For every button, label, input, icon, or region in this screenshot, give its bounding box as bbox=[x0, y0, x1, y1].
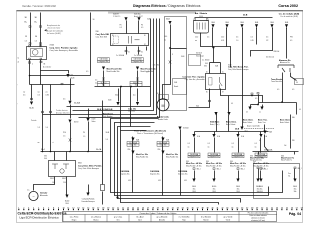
svg-text:Alternador: Alternador bbox=[40, 194, 48, 197]
svg-text:X84 2: X84 2 bbox=[62, 178, 66, 180]
svg-text:35: 35 bbox=[187, 207, 189, 209]
svg-text:12: 12 bbox=[72, 207, 74, 209]
connector X2 inline bbox=[66, 74, 69, 77]
svg-text:0.5: 0.5 bbox=[292, 89, 294, 91]
svg-text:87: 87 bbox=[222, 91, 224, 93]
svg-text:Bomb.: Bomb. bbox=[174, 86, 179, 88]
wire: connector chain bbox=[70, 79, 72, 101]
svg-text:0.5: 0.5 bbox=[251, 37, 253, 39]
battery B1 bbox=[194, 21, 209, 34]
svg-text:Trava Direção: Trava Direção bbox=[271, 78, 282, 81]
svg-text:Diag. 30a: Diag. 30a bbox=[130, 145, 137, 147]
svg-text:30-B: 30-B bbox=[211, 22, 214, 24]
svg-text:Maxi-Fusible +B 30a: Maxi-Fusible +B 30a bbox=[186, 165, 201, 167]
svg-text:16.0: 16.0 bbox=[164, 36, 167, 38]
svg-text:14: 14 bbox=[82, 207, 84, 209]
svg-text:Solen.: Solen. bbox=[92, 121, 97, 123]
svg-text:Cts. de medición (30-B): Cts. de medición (30-B) bbox=[280, 15, 298, 18]
svg-text:1.0: 1.0 bbox=[236, 40, 238, 42]
svg-text:3: 3 bbox=[28, 207, 29, 209]
svg-text:P10: P10 bbox=[63, 132, 66, 134]
svg-text:30-B: 30-B bbox=[136, 140, 139, 142]
svg-text:Bater. Tras.: Bater. Tras. bbox=[258, 119, 268, 122]
svg-text:Conj. Distr. Elétr. Partida: Conj. Distr. Elétr. Partida bbox=[78, 165, 102, 168]
svg-text:87: 87 bbox=[144, 44, 146, 46]
svg-text:0.5: 0.5 bbox=[63, 99, 65, 101]
svg-text:X1 30-B: X1 30-B bbox=[183, 128, 188, 130]
svg-text:25.0: 25.0 bbox=[195, 37, 198, 39]
svg-text:chicote do motor: chicote do motor bbox=[47, 26, 61, 29]
svg-text:bl = Azul: bl = Azul bbox=[137, 216, 144, 219]
svg-text:30a: 30a bbox=[135, 85, 138, 87]
maxi fuse F1 arrow bbox=[102, 67, 105, 70]
svg-text:Amarillo: Amarillo bbox=[159, 218, 165, 221]
svg-text:0.5: 0.5 bbox=[208, 143, 210, 145]
svg-text:X2: X2 bbox=[71, 75, 73, 77]
svg-text:X30: X30 bbox=[96, 31, 99, 33]
battery main cable bbox=[201, 33, 227, 47]
svg-text:30-30: 30-30 bbox=[65, 201, 69, 203]
svg-text:Conj. 30a: Conj. 30a bbox=[128, 111, 135, 113]
wire: ignition sw pin to ground branch bbox=[29, 60, 31, 85]
svg-text:Negro: Negro bbox=[72, 218, 77, 221]
svg-text:0.5: 0.5 bbox=[86, 71, 88, 73]
svg-text:7a6: 7a6 bbox=[284, 145, 287, 147]
tap to column CL3 bbox=[178, 127, 181, 130]
fuse reference boxes F1 bbox=[98, 58, 110, 60]
svg-text:B6: B6 bbox=[44, 64, 46, 66]
junction split row bbox=[30, 75, 91, 77]
svg-text:0.5: 0.5 bbox=[266, 37, 268, 39]
svg-text:0.35: 0.35 bbox=[158, 180, 161, 182]
svg-text:13: 13 bbox=[77, 207, 79, 209]
svg-text:2: 2 bbox=[23, 207, 24, 209]
svg-text:C/A 30500A: C/A 30500A bbox=[120, 170, 130, 173]
svg-text:7a1: 7a1 bbox=[288, 176, 291, 178]
svg-text:58: 58 bbox=[301, 207, 303, 209]
fused tap at x=238 bbox=[238, 132, 240, 135]
svg-text:11: 11 bbox=[67, 207, 69, 209]
svg-text:86: 86 bbox=[112, 35, 114, 37]
svg-text:Pont. c/ Transistores (Só Dies: Pont. c/ Transistores (Só Diesel) bbox=[137, 132, 163, 135]
svg-text:Blanco: Blanco bbox=[93, 219, 98, 221]
svg-text:25.0: 25.0 bbox=[63, 182, 66, 184]
fused tap at x=214 bbox=[214, 132, 216, 135]
svg-text:25: 25 bbox=[137, 207, 139, 209]
svg-text:Maxi-Fusible 7a: Maxi-Fusible 7a bbox=[281, 160, 292, 162]
svg-text:1.5: 1.5 bbox=[83, 136, 85, 138]
svg-text:↕ B1 ↕ B2: ↕ B1 ↕ B2 bbox=[152, 65, 159, 67]
junction on loop bbox=[116, 196, 118, 198]
svg-text:0.35: 0.35 bbox=[128, 180, 131, 182]
svg-text:0.5: 0.5 bbox=[255, 143, 257, 145]
svg-text:0.5: 0.5 bbox=[23, 95, 25, 97]
lever switch symbol bbox=[278, 65, 294, 72]
svg-text:30a: 30a bbox=[260, 188, 263, 190]
svg-text:rt = Vermelho: rt = Vermelho bbox=[179, 216, 190, 219]
svg-text:30a: 30a bbox=[213, 188, 216, 190]
connector arrow: starter command bbox=[88, 185, 90, 193]
svg-text:Conj. Distr. Elétr. Arranque: Conj. Distr. Elétr. Arranque bbox=[78, 167, 99, 170]
svg-text:57: 57 bbox=[296, 207, 298, 209]
svg-text:22: 22 bbox=[122, 207, 124, 209]
svg-text:sw = Preto: sw = Preto bbox=[70, 216, 79, 219]
svg-text:37: 37 bbox=[196, 207, 198, 209]
junction drops bbox=[120, 86, 122, 88]
splices under fuses bbox=[103, 71, 105, 87]
svg-text:17: 17 bbox=[97, 207, 99, 209]
svg-text:0.5: 0.5 bbox=[255, 98, 257, 100]
svg-text:0.5: 0.5 bbox=[207, 37, 209, 39]
wire: column to bus (sw 0.5) bbox=[42, 85, 44, 152]
svg-text:Maxi-Fusible 30a: Maxi-Fusible 30a bbox=[107, 71, 120, 73]
feed arrow right branch bbox=[264, 125, 266, 131]
svg-text:Alavanca Dir.: Alavanca Dir. bbox=[280, 61, 290, 64]
svg-text:Diagramas Elétricos / Diagrama: Diagramas Elétricos / Diagramas Eléctric… bbox=[133, 4, 201, 8]
svg-text:0.5: 0.5 bbox=[290, 40, 292, 42]
wire with inline fuse at x103 bbox=[102, 101, 104, 152]
svg-text:30-4 A: 30-4 A bbox=[96, 148, 102, 151]
svg-text:Conj. Inter. Arranque y Encend: Conj. Inter. Arranque y Encendido bbox=[50, 49, 78, 52]
svg-text:Maxi-Fusible +B 30a: Maxi-Fusible +B 30a bbox=[206, 165, 221, 167]
split arrows below junction bbox=[251, 104, 259, 106]
wire: B+ feed to ignition switch bbox=[40, 13, 42, 47]
svg-text:Corsa 2002: Corsa 2002 bbox=[278, 4, 298, 8]
svg-text:30-1: 30-1 bbox=[205, 63, 208, 65]
svg-text:30-30A: 30-30A bbox=[74, 102, 81, 105]
svg-text:Bomba Comb.: Bomba Comb. bbox=[158, 119, 169, 121]
svg-text:Pág. 04: Pág. 04 bbox=[289, 212, 301, 216]
device group at x=214 bbox=[213, 168, 215, 170]
svg-text:ge = Amarelo: ge = Amarelo bbox=[157, 216, 168, 219]
svg-text:0.5: 0.5 bbox=[277, 89, 279, 91]
center column CL1 bbox=[132, 137, 134, 193]
svg-text:0.85: 0.85 bbox=[46, 95, 49, 97]
svg-text:34: 34 bbox=[182, 207, 184, 209]
svg-text:Maxi-Fusível 50a: Maxi-Fusível 50a bbox=[250, 158, 264, 160]
pump relay inner box bbox=[173, 79, 187, 95]
ignition switch S1 (Conj. Inter. Partida e Ignição) bbox=[27, 47, 47, 60]
svg-text:8: 8 bbox=[53, 207, 54, 209]
svg-text:X84: X84 bbox=[44, 156, 47, 158]
svg-text:30-B: 30-B bbox=[285, 22, 288, 24]
svg-text:25.0: 25.0 bbox=[221, 37, 224, 39]
svg-text:53: 53 bbox=[276, 207, 278, 209]
connector arrows to grounds bbox=[118, 89, 120, 102]
svg-text:20: 20 bbox=[112, 207, 114, 209]
right group 1 inner bbox=[258, 152, 260, 155]
ground at x=214 bbox=[212, 179, 215, 182]
svg-text:18: 18 bbox=[102, 207, 104, 209]
svg-text:1.5: 1.5 bbox=[38, 127, 40, 129]
svg-text:47: 47 bbox=[246, 207, 248, 209]
svg-text:5: 5 bbox=[38, 207, 39, 209]
alternator G1 bbox=[29, 191, 38, 200]
svg-text:30-B: 30-B bbox=[108, 100, 111, 102]
svg-text:30-B: 30-B bbox=[243, 15, 248, 17]
svg-text:33: 33 bbox=[177, 207, 179, 209]
wire: pump feed bbox=[163, 25, 171, 99]
right group 2 inner bbox=[294, 152, 296, 155]
svg-text:0.5: 0.5 bbox=[141, 27, 143, 29]
svg-text:30a: 30a bbox=[294, 189, 297, 191]
svg-text:30-4: 30-4 bbox=[44, 158, 47, 160]
relay K2 fuel pump relay bbox=[206, 74, 226, 90]
svg-text:30-B: 30-B bbox=[181, 56, 184, 58]
svg-text:0.5: 0.5 bbox=[232, 143, 234, 145]
fuse reference boxes F2 bbox=[132, 58, 144, 60]
svg-text:Conj. Inter. Partida e Ignição: Conj. Inter. Partida e Ignição bbox=[50, 46, 79, 49]
wire + splice to bus bbox=[70, 123, 72, 152]
svg-text:1.0: 1.0 bbox=[46, 127, 48, 129]
svg-text:1: 1 bbox=[18, 207, 19, 209]
bus under fuses bbox=[95, 86, 151, 88]
svg-text:X58 Cx4: X58 Cx4 bbox=[274, 51, 280, 53]
svg-text:41: 41 bbox=[216, 207, 218, 209]
svg-text:0.5: 0.5 bbox=[95, 80, 97, 82]
svg-text:85: 85 bbox=[206, 91, 208, 93]
svg-text:Maxi-Fusible 30a: Maxi-Fusible 30a bbox=[136, 156, 148, 158]
aux connector box right bbox=[295, 79, 304, 85]
svg-text:0.5: 0.5 bbox=[259, 140, 261, 142]
svg-text:Bater. Diant.: Bater. Diant. bbox=[243, 119, 254, 122]
svg-text:X84: X84 bbox=[78, 163, 81, 165]
svg-text:X84_1: X84_1 bbox=[217, 169, 221, 171]
svg-text:50: 50 bbox=[35, 36, 37, 38]
svg-text:C 30-B 2.5: C 30-B 2.5 bbox=[113, 16, 120, 18]
ground at x=194 bbox=[192, 179, 195, 182]
svg-text:X145 Bater.: X145 Bater. bbox=[210, 121, 220, 124]
svg-text:29: 29 bbox=[157, 207, 159, 209]
svg-text:55: 55 bbox=[286, 207, 288, 209]
svg-text:30-B: 30-B bbox=[270, 22, 273, 24]
svg-text:gr = Cinza: gr = Cinza bbox=[114, 217, 122, 219]
svg-text:54: 54 bbox=[281, 207, 283, 209]
svg-text:30-B: 30-B bbox=[166, 140, 169, 142]
svg-text:Maxi-Fus. 30a: Maxi-Fus. 30a bbox=[136, 154, 149, 156]
ground at x=261 bbox=[259, 179, 262, 182]
svg-text:X84_1: X84_1 bbox=[261, 168, 265, 170]
enclosure: fuel pump assembly bbox=[165, 17, 187, 111]
svg-text:30a: 30a bbox=[193, 188, 196, 190]
svg-text:Bat. / Batería: Bat. / Batería bbox=[195, 12, 208, 15]
svg-text:Gris: Gris bbox=[116, 218, 119, 221]
svg-text:Partida: Partida bbox=[31, 119, 36, 122]
wire: relay coil feed bbox=[126, 21, 128, 34]
svg-text:30-4: 30-4 bbox=[196, 105, 199, 107]
svg-text:19: 19 bbox=[107, 207, 109, 209]
svg-text:X1: X1 bbox=[128, 52, 130, 54]
ground G30-30 starter bbox=[65, 195, 68, 198]
svg-text:0.5: 0.5 bbox=[236, 37, 238, 39]
svg-text:Conj. 30a: Conj. 30a bbox=[128, 108, 137, 110]
maxi fuse F2 arrow bbox=[136, 67, 139, 70]
svg-text:30a: 30a bbox=[102, 85, 105, 87]
svg-text:br = Marrom: br = Marrom bbox=[201, 217, 211, 219]
svg-text:X170: X170 bbox=[74, 122, 78, 124]
ground G30-30 bbox=[30, 102, 33, 105]
wire: branch to lower splice bbox=[40, 71, 42, 85]
branch to relay area bbox=[171, 48, 187, 50]
svg-text:Verde: Verde bbox=[226, 218, 230, 221]
center column CL2 bbox=[162, 137, 164, 196]
wire bundle: feed runs bbox=[67, 19, 151, 107]
svg-text:0.5: 0.5 bbox=[246, 112, 248, 114]
svg-text:30a: 30a bbox=[237, 188, 240, 190]
svg-text:P/B: P/B bbox=[292, 140, 294, 142]
svg-text:0.5: 0.5 bbox=[188, 143, 190, 145]
svg-text:X84 1: X84 1 bbox=[50, 178, 54, 180]
fuel pump motor M bbox=[159, 95, 169, 100]
relay K2 feed bbox=[213, 48, 215, 63]
svg-text:X4: X4 bbox=[296, 82, 298, 84]
svg-text:30-4: 30-4 bbox=[41, 149, 45, 151]
wires from lever down bbox=[282, 73, 284, 87]
feed arrows into relay bbox=[124, 17, 127, 20]
svg-text:0.35: 0.35 bbox=[221, 40, 224, 42]
svg-text:0.5: 0.5 bbox=[231, 103, 233, 105]
svg-text:1.0: 1.0 bbox=[106, 139, 108, 141]
svg-text:Maxi-Fusible 50a: Maxi-Fusible 50a bbox=[250, 160, 262, 162]
svg-text:40: 40 bbox=[211, 207, 213, 209]
svg-text:2.5: 2.5 bbox=[146, 72, 148, 74]
svg-text:0.5: 0.5 bbox=[299, 109, 301, 111]
svg-text:30: 30 bbox=[93, 19, 95, 21]
svg-text:30-30: 30-30 bbox=[212, 186, 216, 188]
bus 30-B lower bbox=[195, 131, 269, 133]
svg-text:4: 4 bbox=[33, 207, 34, 209]
border frame bbox=[17, 11, 303, 223]
svg-text:Bater. Diant.: Bater. Diant. bbox=[226, 121, 237, 124]
svg-text:gn = Verde: gn = Verde bbox=[224, 217, 233, 219]
svg-text:Cx. 30500: Cx. 30500 bbox=[202, 60, 209, 62]
svg-text:C/A 30500A: C/A 30500A bbox=[150, 170, 160, 173]
svg-text:30-B: 30-B bbox=[255, 22, 258, 24]
svg-text:30-B RT: 30-B RT bbox=[113, 14, 119, 16]
svg-text:30-B: 30-B bbox=[235, 129, 240, 131]
svg-text:C1+: C1+ bbox=[27, 190, 30, 192]
svg-text:9: 9 bbox=[58, 207, 59, 209]
svg-text:Marrón: Marrón bbox=[203, 218, 208, 221]
svg-text:32: 32 bbox=[172, 207, 174, 209]
svg-text:0.35: 0.35 bbox=[184, 180, 187, 182]
svg-text:Liga ECR-Distribución Eléctric: Liga ECR-Distribución Eléctrica bbox=[20, 216, 59, 220]
svg-text:X1: X1 bbox=[141, 52, 143, 54]
wire: column 2 to bus bbox=[50, 85, 52, 152]
svg-text:26: 26 bbox=[142, 207, 144, 209]
svg-text:Bater. Diant.: Bater. Diant. bbox=[280, 119, 291, 122]
fused tap at x=194 bbox=[194, 132, 196, 135]
svg-text:ws = Branco: ws = Branco bbox=[91, 217, 101, 219]
svg-text:sw: sw bbox=[259, 112, 261, 114]
svg-text:ws: ws bbox=[46, 92, 48, 94]
wire: ignition sw pin 50 run bbox=[41, 60, 69, 74]
svg-text:30: 30 bbox=[162, 207, 164, 209]
svg-text:0.5: 0.5 bbox=[120, 27, 122, 29]
wire between connectors bbox=[70, 105, 72, 119]
device group at x=261 bbox=[260, 168, 262, 170]
enclosure box right bottom bbox=[254, 164, 300, 199]
svg-text:Rojo: Rojo bbox=[182, 219, 186, 221]
svg-text:43: 43 bbox=[226, 207, 228, 209]
wire loop L4 bbox=[121, 131, 219, 205]
svg-text:1/2: 1/2 bbox=[266, 40, 268, 42]
svg-text:(Só Diesel): (Só Diesel) bbox=[266, 57, 274, 59]
drop to front battery label bbox=[228, 96, 230, 113]
svg-text:52: 52 bbox=[271, 207, 273, 209]
svg-text:51: 51 bbox=[266, 207, 268, 209]
svg-text:C/A 30500A: C/A 30500A bbox=[178, 170, 188, 173]
svg-text:X105: X105 bbox=[50, 44, 54, 46]
device group at x=238 bbox=[237, 168, 239, 170]
svg-text:X50: X50 bbox=[128, 149, 131, 151]
starter solenoid box X84 (Conj. Distr. Elétr. Partida) bbox=[49, 161, 76, 177]
svg-text:X170: X170 bbox=[92, 119, 96, 121]
legend table bbox=[63, 212, 277, 222]
inline connector X170 bbox=[68, 120, 71, 123]
svg-text:0.35: 0.35 bbox=[251, 40, 254, 42]
svg-text:X84_1: X84_1 bbox=[298, 168, 302, 170]
main relay K1 (Conj. Rele Princ.) bbox=[111, 34, 149, 46]
current track ruler bbox=[18, 207, 303, 210]
bus 30-B from battery bbox=[195, 17, 273, 19]
svg-text:X84_1: X84_1 bbox=[241, 169, 245, 171]
svg-text:Maxi-Fus. 30a: Maxi-Fus. 30a bbox=[166, 154, 179, 156]
svg-text:30a: 30a bbox=[257, 189, 260, 191]
svg-text:48: 48 bbox=[251, 207, 253, 209]
svg-text:P4: P4 bbox=[83, 132, 85, 134]
svg-text:50: 50 bbox=[261, 207, 263, 209]
svg-text:28: 28 bbox=[152, 207, 154, 209]
fused tap at x=261 bbox=[260, 132, 262, 135]
wire: long feed from top area bbox=[90, 13, 92, 76]
svg-text:49: 49 bbox=[256, 207, 258, 209]
svg-text:46: 46 bbox=[241, 207, 243, 209]
svg-text:44: 44 bbox=[231, 207, 233, 209]
svg-text:X84_1: X84_1 bbox=[197, 169, 201, 171]
svg-text:1.5: 1.5 bbox=[35, 41, 38, 43]
svg-text:Pont. c/ Transistores (Só Dies: Pont. c/ Transistores (Só Diesel) bbox=[134, 130, 166, 133]
svg-text:Maxi-Fusible +B 30a: Maxi-Fusible +B 30a bbox=[230, 165, 245, 167]
svg-text:Maxi-Fusible 30a: Maxi-Fusible 30a bbox=[166, 156, 178, 158]
svg-text:7: 7 bbox=[48, 207, 49, 209]
svg-text:30-B: 30-B bbox=[174, 82, 177, 84]
svg-text:Conj. Rele Bomb. Arranque: Conj. Rele Bomb. Arranque bbox=[228, 68, 249, 71]
svg-text:38: 38 bbox=[201, 207, 203, 209]
svg-text:Versão / Version: 09/01/02: Versão / Version: 09/01/02 bbox=[22, 4, 56, 8]
svg-text:30-B: 30-B bbox=[215, 66, 218, 68]
svg-text:30-B: 30-B bbox=[147, 19, 150, 21]
wire loop L2 bbox=[115, 123, 269, 196]
svg-text:X4 30-B: X4 30-B bbox=[196, 53, 202, 55]
svg-text:X50: X50 bbox=[158, 149, 161, 151]
svg-text:42: 42 bbox=[221, 207, 223, 209]
wire P/B right bbox=[290, 115, 292, 149]
svg-text:M: M bbox=[162, 104, 165, 108]
wires below relay K2 bbox=[189, 89, 210, 108]
svg-text:P6: P6 bbox=[120, 25, 122, 27]
svg-text:del motor (Só AT): del motor (Só AT) bbox=[47, 32, 61, 35]
collector line bbox=[259, 102, 297, 104]
svg-text:Maxi-Fusível 7a: Maxi-Fusível 7a bbox=[281, 158, 294, 160]
device group at x=194 bbox=[193, 168, 195, 170]
svg-text:45: 45 bbox=[236, 207, 238, 209]
svg-text:24: 24 bbox=[132, 207, 134, 209]
svg-text:30-B 30a: 30-B 30a bbox=[134, 14, 141, 16]
ground wire G30 with labels bbox=[31, 85, 33, 101]
svg-text:Acendedor: Acendedor bbox=[43, 66, 52, 69]
link bus under relay bbox=[221, 89, 263, 103]
